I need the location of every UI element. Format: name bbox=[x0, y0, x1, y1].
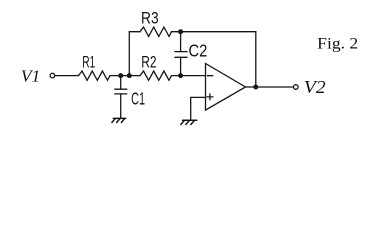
svg-text:R1: R1 bbox=[82, 53, 95, 72]
wire R1 to R2 bbox=[110, 75, 140, 77]
node V1 input terminal bbox=[50, 73, 55, 78]
svg-text:R2: R2 bbox=[141, 53, 156, 72]
op-amp U1 bbox=[206, 64, 246, 111]
svg-text:C2: C2 bbox=[189, 41, 208, 61]
svg-text:V1: V1 bbox=[21, 66, 40, 85]
svg-text:Fig. 2: Fig. 2 bbox=[317, 36, 358, 53]
op-amp minus pin mark bbox=[207, 75, 213, 77]
wire R3 branch vertical tap bbox=[128, 32, 130, 76]
node junction C2 top bbox=[178, 29, 183, 34]
wire R3 to feedback corner bbox=[172, 31, 256, 33]
wire top left to R3 bbox=[129, 31, 140, 33]
wire op-amp plus input bbox=[191, 97, 206, 119]
svg-text:C1: C1 bbox=[131, 88, 145, 108]
resistor R1 bbox=[79, 71, 111, 80]
capacitor C2 bbox=[175, 32, 187, 76]
node junction C1 tap bbox=[118, 73, 123, 78]
wire feedback vertical bbox=[255, 32, 257, 87]
ground below C1 bbox=[112, 118, 126, 122]
wire R2 to op-amp bbox=[172, 75, 206, 77]
op-amp plus pin mark bbox=[207, 94, 213, 100]
ground below op-amp plus input bbox=[181, 120, 197, 124]
node V2 output terminal bbox=[294, 85, 299, 90]
svg-text:R3: R3 bbox=[141, 9, 159, 28]
wire op-amp output to V2 bbox=[246, 86, 293, 88]
svg-text:V2: V2 bbox=[304, 77, 326, 97]
node junction output feedback bbox=[253, 85, 258, 90]
wire V1 terminal to R1 bbox=[55, 75, 78, 77]
resistor R2 bbox=[140, 71, 172, 80]
node junction C2 bottom bbox=[178, 73, 183, 78]
resistor R3 bbox=[140, 27, 172, 36]
node junction R3 tap bbox=[127, 73, 132, 78]
capacitor C1 bbox=[115, 76, 127, 119]
